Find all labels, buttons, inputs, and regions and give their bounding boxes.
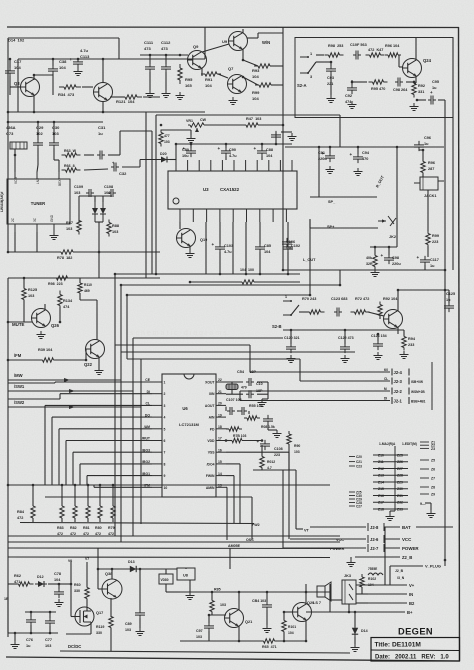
array right dash Z9 — [420, 493, 435, 497]
junction — [14, 632, 17, 635]
svg-text:477: 477 — [164, 134, 170, 138]
ground under R92 — [410, 103, 419, 111]
label R70 243 — [302, 297, 316, 301]
capacitor C29 — [33, 139, 43, 149]
coil L5 — [368, 573, 383, 575]
wire — [424, 265, 426, 270]
svg-text:Z11: Z11 — [378, 460, 384, 464]
crystal X1 — [226, 384, 247, 390]
capacitor C98c — [381, 253, 395, 264]
label R97 472 — [368, 48, 383, 52]
svg-text:6: 6 — [164, 439, 166, 443]
svg-text:165: 165 — [185, 83, 192, 88]
junction — [98, 251, 101, 254]
svg-text:/DO4: /DO4 — [207, 462, 215, 466]
svg-text:CXA1522: CXA1522 — [220, 187, 240, 192]
capacitor C123 — [334, 308, 342, 317]
U6 left pin 5 /AM — [144, 425, 166, 431]
ground under C94 — [354, 168, 363, 176]
svg-text:AM05E: AM05E — [228, 544, 241, 548]
U3 bottom pin 16 — [232, 209, 234, 222]
svg-text:/3_N: /3_N — [397, 576, 405, 580]
svg-text:D12: D12 — [37, 575, 44, 579]
wire — [247, 37, 258, 39]
wire long vert B — [151, 131, 153, 274]
U3 bottom pin 13 — [192, 209, 194, 222]
svg-text:Z28: Z28 — [397, 474, 403, 478]
wire Q23 collector — [397, 290, 399, 311]
ground under R94 — [400, 351, 409, 359]
junction — [339, 284, 342, 287]
svg-text:XIN: XIN — [209, 392, 215, 396]
wire — [190, 144, 192, 148]
svg-text:J2-3: J2-3 — [394, 379, 403, 384]
transistor Q17 FET — [75, 607, 103, 626]
wire — [427, 190, 429, 231]
capacitor C109 — [86, 189, 94, 197]
U3 top pin 8 — [256, 160, 258, 171]
svg-text:+: + — [257, 439, 260, 444]
wire U6 left pin 6 drop — [65, 441, 67, 486]
wire — [73, 251, 160, 253]
svg-text:DI: DI — [384, 396, 387, 400]
wire Q33 collector — [102, 59, 104, 83]
array row Z16 Z31 — [373, 494, 408, 498]
label R121 104 — [116, 99, 135, 104]
wire — [23, 278, 25, 288]
IC U8 box — [177, 568, 195, 580]
junction — [77, 58, 80, 61]
svg-text:+: + — [350, 152, 353, 157]
wire — [226, 428, 229, 430]
svg-text:R88: R88 — [112, 224, 119, 228]
wire to J2-2 — [240, 390, 352, 392]
wire — [283, 632, 285, 641]
svg-text:C21: C21 — [356, 460, 362, 464]
wire — [275, 640, 306, 642]
transistor Q9 — [188, 51, 207, 70]
junction — [357, 146, 360, 149]
wire — [52, 59, 54, 66]
svg-text:4: 4 — [164, 416, 166, 420]
wire /SW2 arrow — [8, 405, 141, 409]
wire audio rail y592 — [180, 591, 330, 593]
wire — [37, 148, 39, 165]
svg-text:C85: C85 — [264, 244, 271, 248]
svg-text:PD: PD — [210, 427, 215, 431]
resistor R83 472 — [60, 502, 64, 522]
svg-text:R82: R82 — [70, 526, 77, 530]
array left label C29 — [349, 498, 362, 502]
svg-text:1: 1 — [285, 295, 287, 299]
svg-text:GND: GND — [50, 214, 54, 222]
svg-text:CW: CW — [200, 118, 207, 122]
ground under Q22 — [95, 367, 104, 375]
wire — [261, 144, 263, 148]
U6 left pin 10 /FM — [144, 484, 167, 490]
svg-text:1u: 1u — [430, 264, 435, 268]
label R95 470 — [371, 87, 385, 91]
wire — [283, 612, 285, 620]
array left label C20 — [349, 455, 362, 459]
svg-text:LS 7: LS 7 — [313, 601, 321, 605]
svg-text:103: 103 — [125, 628, 131, 632]
svg-text:/SW1: /SW1 — [14, 384, 25, 389]
wire right rail inner — [444, 117, 446, 560]
junction — [282, 124, 285, 127]
resistor R93 — [254, 64, 274, 68]
wire feed — [97, 548, 99, 589]
label R44 473 — [164, 134, 170, 144]
svg-text:D13: D13 — [128, 560, 135, 564]
svg-text:R70 243: R70 243 — [302, 297, 316, 301]
label C31 1u — [98, 125, 106, 136]
resistor R82 472 — [73, 502, 77, 522]
wire — [170, 159, 176, 161]
label C10F 563 — [350, 43, 367, 47]
svg-text:104 100: 104 100 — [240, 268, 254, 272]
svg-text:103: 103 — [220, 603, 226, 607]
svg-text:3C: 3C — [33, 217, 37, 222]
wire nest h4 — [121, 351, 355, 353]
U3 bottom pin 17 — [246, 209, 248, 222]
svg-text:R60: R60 — [74, 583, 81, 587]
wire — [261, 468, 263, 471]
svg-text:104: 104 — [59, 65, 66, 70]
svg-text:474: 474 — [345, 100, 352, 104]
junction — [330, 61, 333, 64]
svg-text:C38: C38 — [59, 59, 67, 64]
capacitor C111 — [145, 63, 155, 73]
wire — [59, 307, 61, 322]
svg-text:C76: C76 — [26, 638, 33, 642]
ground Z2B — [347, 559, 356, 567]
svg-text:BEXT: BEXT — [58, 178, 62, 186]
wire — [7, 597, 9, 633]
svg-text:C117: C117 — [430, 258, 439, 262]
regulator VD80 box — [159, 574, 173, 584]
wire — [258, 32, 283, 34]
svg-text:K0: K0 — [384, 368, 388, 372]
label C108 103 — [104, 185, 113, 195]
capacitor C10 — [246, 390, 254, 398]
capacitor C113 — [70, 57, 84, 68]
array right dash Z1 — [420, 441, 435, 445]
op-amp U3 CXA1522 box — [168, 171, 297, 209]
wire — [288, 444, 290, 470]
svg-text:14: 14 — [218, 472, 222, 476]
junction — [208, 614, 211, 617]
wire — [368, 312, 384, 316]
junction — [74, 484, 77, 487]
wire — [398, 55, 400, 67]
ground under Q19 — [186, 250, 195, 258]
wire U6 left pin 8 drop — [79, 464, 81, 485]
svg-text:J2-1: J2-1 — [394, 398, 403, 403]
array row Z14 Z29 — [373, 480, 408, 484]
connector J2-1 — [352, 396, 426, 404]
svg-text:Q26: Q26 — [51, 323, 60, 328]
label R96 104 — [385, 44, 400, 48]
junction — [305, 640, 308, 643]
wire — [94, 196, 96, 202]
wire bottom rail — [60, 651, 350, 653]
svg-text:Z14: Z14 — [378, 480, 384, 484]
svg-text:R62: R62 — [14, 574, 21, 578]
label C103 4.7u — [224, 244, 233, 254]
wire FWIN out — [226, 475, 234, 477]
wire — [377, 334, 379, 341]
label C32 1u — [119, 171, 127, 176]
capacitor C89 — [271, 131, 281, 141]
svg-text:+: + — [218, 146, 221, 151]
svg-text:CB4 103: CB4 103 — [252, 599, 266, 603]
wire — [165, 569, 167, 574]
svg-text:470: 470 — [362, 157, 368, 161]
U6 left pin 2 DI — [147, 390, 166, 396]
array right dash Z3 — [420, 447, 435, 451]
svg-text:WSM+2B: WSM+2B — [411, 390, 425, 394]
svg-text:Z18: Z18 — [378, 507, 384, 511]
label C98 220u — [392, 256, 401, 266]
U6 right pin 14 FWIN — [206, 472, 226, 478]
wire — [102, 101, 104, 112]
svg-text:+: + — [430, 90, 433, 95]
ground under tuner — [50, 232, 59, 240]
U6 left pin 7 /BO3 — [142, 448, 165, 454]
switch S2-A — [300, 52, 316, 79]
wire nest v3 — [126, 295, 128, 359]
wire — [190, 281, 242, 283]
resistor R80 472 — [98, 502, 102, 522]
svg-text:221: 221 — [327, 82, 333, 86]
wire nest v1 — [114, 274, 116, 345]
junction — [283, 611, 286, 614]
wire U6 left pin 10 — [94, 486, 152, 488]
label R87 103 — [66, 221, 73, 231]
svg-text:R63 W: R63 W — [64, 149, 77, 153]
svg-text:Q9: Q9 — [193, 44, 199, 49]
svg-text:CL: CL — [384, 377, 388, 381]
wire — [175, 144, 177, 160]
wire U6 left pin 4 — [52, 416, 152, 418]
resistor R56 — [226, 427, 242, 431]
svg-text:22: 22 — [218, 378, 222, 382]
wire — [90, 622, 92, 634]
svg-text:472 K47: 472 K47 — [368, 48, 383, 52]
ground array left — [386, 513, 395, 521]
wire — [267, 382, 269, 399]
resistor R88 — [107, 220, 111, 237]
junction — [309, 294, 312, 297]
wire — [219, 222, 221, 244]
wire — [257, 393, 268, 395]
junction — [58, 583, 61, 586]
wire — [266, 592, 268, 602]
junction — [49, 632, 52, 635]
wire bus top — [8, 484, 330, 486]
wire nest h5 — [127, 358, 300, 360]
wire — [7, 59, 9, 112]
border frame top — [7, 26, 459, 29]
junction — [7, 251, 10, 254]
wire — [79, 195, 112, 197]
junction — [30, 611, 33, 614]
capacitor C88 — [254, 146, 268, 157]
wire — [251, 497, 253, 540]
wire — [352, 81, 367, 83]
svg-text:R98 253: R98 253 — [328, 44, 343, 48]
svg-text:Z33: Z33 — [397, 507, 403, 511]
transistor Q38 — [102, 579, 122, 599]
U3 bottom pin 15 — [219, 209, 221, 222]
svg-text:R110: R110 — [84, 283, 92, 287]
svg-text:AMIN: AMIN — [206, 486, 215, 490]
junction — [348, 611, 351, 614]
svg-text:C92: C92 — [345, 94, 352, 98]
svg-text:C123 683: C123 683 — [331, 297, 347, 301]
label R80 472 — [95, 526, 102, 530]
svg-text:Q21: Q21 — [245, 620, 252, 624]
wire — [283, 329, 404, 331]
label C85 104 — [264, 244, 271, 254]
ground under C122 — [341, 355, 350, 363]
label R82 472 — [70, 526, 77, 530]
wire — [261, 445, 263, 456]
svg-text:IN: IN — [409, 592, 413, 597]
label R99 104 — [252, 90, 260, 101]
label C94 470 — [362, 151, 370, 161]
wire — [82, 86, 93, 88]
wire — [406, 81, 414, 83]
wire — [351, 80, 353, 85]
wire — [225, 407, 227, 411]
label C93 221 — [327, 76, 334, 86]
svg-text:B+: B+ — [407, 610, 413, 615]
wire — [258, 124, 283, 126]
svg-text:FW2: FW2 — [252, 523, 260, 527]
wire — [143, 96, 160, 98]
svg-text:Z9: Z9 — [431, 493, 435, 497]
resistor R70 — [306, 310, 325, 314]
ground under C78 — [55, 599, 64, 607]
ground under R97 — [371, 269, 380, 277]
wire nest v5 drop — [140, 359, 142, 524]
label C120 321 — [284, 336, 300, 340]
svg-text:103: 103 — [66, 227, 72, 231]
wire — [9, 59, 11, 68]
svg-text:472: 472 — [57, 532, 63, 536]
U3 top pin 5 — [221, 160, 223, 171]
svg-text:R83: R83 — [57, 526, 64, 530]
junction — [30, 632, 33, 635]
label R98 223 — [328, 44, 343, 48]
array row Z13 Z28 — [373, 474, 408, 478]
wire — [354, 637, 356, 644]
junction — [99, 484, 102, 487]
svg-text:R94: R94 — [408, 337, 416, 341]
U6 right pin 15 /DO4 — [207, 460, 226, 466]
resistor R98c — [53, 276, 72, 280]
wire — [70, 560, 72, 584]
svg-text:C125: C125 — [446, 292, 455, 296]
array left label C21 — [349, 460, 362, 464]
resistor R98 — [325, 53, 344, 57]
svg-text:/FM: /FM — [14, 353, 22, 358]
wire — [419, 149, 423, 151]
wire — [14, 149, 16, 172]
svg-text:B2: B2 — [409, 601, 415, 606]
svg-text:472: 472 — [17, 516, 23, 520]
transistor Q7 — [228, 75, 247, 94]
wire — [139, 618, 141, 628]
label C102 — [291, 244, 300, 248]
varactor D6 — [100, 202, 106, 222]
capacitor C120 — [286, 343, 296, 353]
wire nest h1 — [121, 284, 340, 286]
svg-text:R98 223: R98 223 — [48, 282, 63, 286]
wire — [201, 68, 203, 76]
wire — [34, 74, 53, 76]
junction — [179, 54, 182, 57]
wire vert to POWER — [282, 470, 284, 548]
wire — [79, 293, 81, 300]
label R99 223 — [432, 234, 439, 244]
wire — [225, 144, 227, 148]
svg-text:Z26: Z26 — [397, 460, 403, 464]
label C123 683 — [331, 297, 347, 301]
wire nest right v — [339, 270, 341, 285]
wire — [112, 518, 114, 522]
svg-text:+: + — [254, 146, 257, 151]
array row Z17 Z32 — [373, 501, 408, 505]
wire — [87, 485, 89, 506]
svg-text:V_PLUG: V_PLUG — [425, 564, 441, 569]
svg-text:C17: C17 — [14, 59, 22, 64]
resistor R7B — [229, 438, 245, 442]
U6 left pin 4 DO — [145, 413, 166, 419]
ground under C92 — [348, 101, 357, 109]
capacitor C122 — [340, 343, 350, 353]
svg-text:VSS: VSS — [208, 451, 216, 455]
capacitor C111b — [239, 407, 247, 415]
wire — [112, 485, 114, 506]
wire — [344, 330, 346, 344]
label C106 10u — [286, 240, 295, 250]
wire long vert A — [145, 112, 147, 278]
diode D14 — [352, 625, 358, 637]
transistor Q26 — [32, 309, 51, 328]
wire U6 pin1 long — [8, 382, 55, 384]
wire — [390, 565, 423, 567]
wire — [14, 633, 16, 641]
ground under C124 — [374, 352, 383, 360]
jack JACK1 — [414, 177, 444, 198]
wire — [305, 584, 307, 592]
svg-text:472: 472 — [95, 532, 101, 536]
junction — [49, 611, 52, 614]
wire — [330, 62, 332, 66]
resistor R95 — [178, 64, 182, 84]
svg-text:Q22: Q22 — [84, 362, 93, 367]
svg-text:/MW: /MW — [14, 373, 23, 378]
resistor R92c — [378, 302, 382, 319]
wire — [98, 357, 100, 370]
wire U6 left pin 6 — [66, 440, 152, 442]
label R92 331 — [418, 84, 425, 94]
wire — [8, 277, 160, 279]
wire — [108, 154, 118, 156]
